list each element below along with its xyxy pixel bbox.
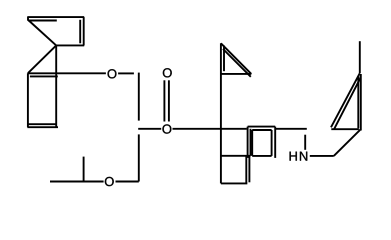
carbonyl C=O double bond right line [168,80,170,121]
left norbornene: tall ring bottom inner double line [29,123,58,125]
middle norbornene: triangle left inner double line [223,46,225,72]
right norbornene: right edge inner double line [357,76,359,128]
wire: isopropyl CH3 bond [50,181,104,183]
cage square S3 right outer edge [248,156,250,183]
cage square S2 inner top [252,129,271,131]
left norbornene: ring right edge outer [83,17,85,45]
wire: ester O to quaternary C [173,128,247,130]
wire: diagonal CH2 to right norbornene [334,130,361,156]
middle norbornene: hypotenuse outer [221,43,251,74]
cage square S1 bottom edge [221,155,251,157]
right norbornene: methyl stem [359,41,361,73]
middle norbornene: triangle bottom edge [221,73,251,75]
wire: vertical bond P5 down [55,45,57,127]
middle norbornene: vertical stem / left edges [220,43,222,183]
left norbornene: ring right edge inner double line [79,20,81,44]
atom label O carbonyl [163,68,172,77]
left norbornene: tall ring top edge + bond to ether O [28,72,106,74]
left norbornene: C=C double bond top outer / ring top edge [28,16,85,18]
wire: diagonal bond P5-P6 [28,45,56,73]
left norbornene: double bond left tip join [27,17,29,21]
cage square S2 outer right [274,127,276,158]
cage square S2 inner left [251,130,253,156]
left norbornene: tall ring top inner double line [30,75,58,77]
cage square S1 right edge [250,129,252,156]
wire: bond N to CH2 [310,155,334,157]
right norbornene: hypotenuse inner double line [334,77,361,129]
cage square S3 bottom edge [221,182,247,184]
atom label H of HN [290,152,297,161]
cage square S2 inner bottom [252,155,271,157]
left norbornene: tall ring bottom outer [27,126,58,128]
atom label O ester [162,124,171,133]
cage square S2 outer top [248,126,276,128]
left norbornene: ring bottom edge [56,44,84,46]
atom label O ether [108,69,117,78]
left norbornene: C=C double bond inner line [28,20,57,22]
wire: isopropyl branch methyl [83,157,85,182]
right norbornene: hypotenuse outer [331,73,360,127]
wire: central vertical bond lower part [138,134,140,181]
cage square S3 right inner edge [245,156,247,184]
wire: central vertical bond upper part [138,73,140,121]
wire: ether O to central C [118,72,134,74]
middle norbornene: hypotenuse inner double line [223,49,251,77]
wire: diagonal bond P1-P5 [28,20,56,45]
left norbornene: tall ring left edge [27,73,29,127]
right norbornene: right edge outer [360,74,362,131]
right norbornene: bottom edge [331,128,359,130]
wire: bond C to ester O left [138,128,161,130]
wire: main chain right of cage [276,128,307,130]
cage square S2 outer left [247,127,249,158]
wire: bottom O to CH2 [116,181,139,183]
atom label O bottom [105,177,114,186]
carbonyl C=O double bond left line [163,80,165,121]
wire: bond C to N vertical [304,135,306,150]
atom label N of HN [300,152,307,161]
cage square S2 inner right [271,130,273,156]
